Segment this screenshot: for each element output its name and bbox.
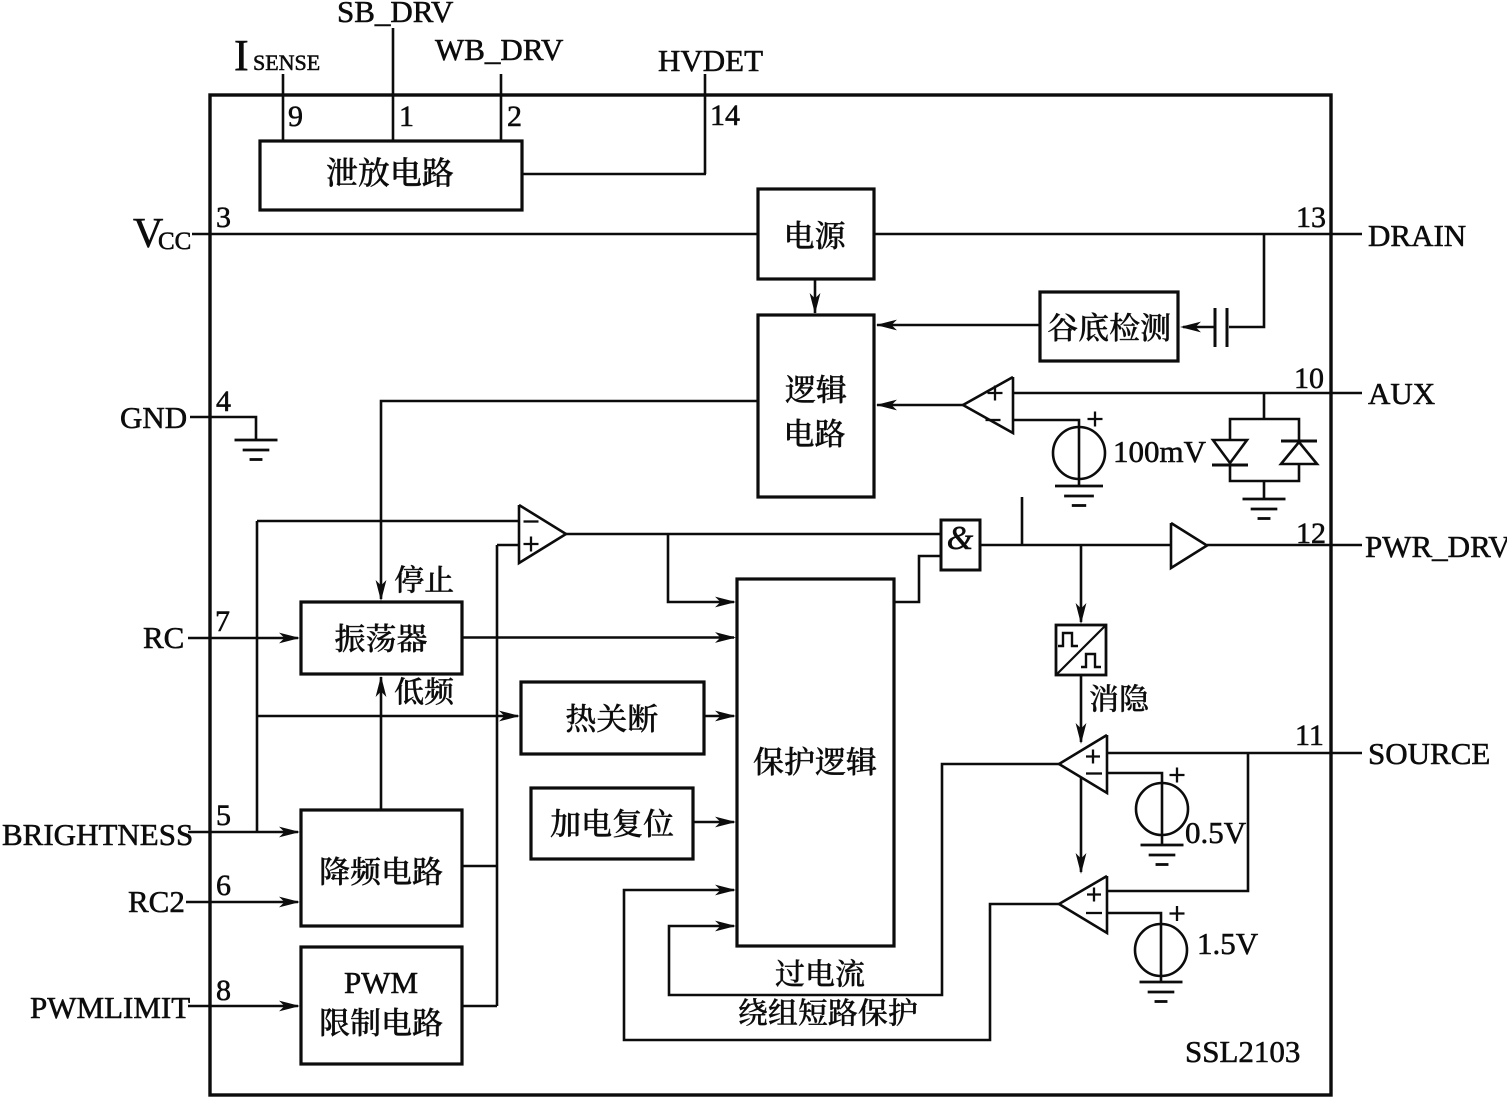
- wire U2 minus from node: [257, 520, 519, 523]
- pin number 10: [1294, 362, 1324, 395]
- wire AUX pin 10: [1013, 392, 1362, 395]
- pin label AUX: [1368, 376, 1435, 411]
- label 过电流: [776, 959, 864, 987]
- svg-text:13: 13: [1296, 201, 1326, 234]
- svg-text:9: 9: [288, 100, 303, 133]
- block U_osc 振荡器: [301, 602, 462, 674]
- svg-text:SENSE: SENSE: [253, 50, 320, 75]
- label 0.5V: [1185, 815, 1247, 850]
- wire ramp vertical: [496, 545, 499, 1006]
- pin label BRIGHTNESS: [2, 817, 193, 852]
- pin label RC2: [128, 884, 185, 919]
- wire PWR_DRV pin 12: [1207, 544, 1362, 547]
- pin label RC: [143, 620, 184, 655]
- svg-text:CC: CC: [158, 228, 191, 255]
- svg-text:RC2: RC2: [128, 884, 185, 919]
- voltage source V2 0.5V: [1136, 768, 1188, 836]
- wire pin 9: [282, 74, 285, 142]
- wire pin 1: [392, 28, 395, 142]
- pin label SB_DRV: [337, 0, 454, 29]
- svg-text:6: 6: [216, 869, 231, 902]
- wire overcurrent feedback: [669, 764, 1059, 995]
- pin number 6: [216, 869, 231, 902]
- ground GND1: [1055, 486, 1103, 506]
- wire DRAIN pin 13: [874, 233, 1362, 236]
- svg-text:10: 10: [1294, 362, 1324, 395]
- svg-text:12: 12: [1296, 517, 1326, 550]
- comparator U2: [519, 505, 566, 563]
- label 谷底检测: [1048, 312, 1169, 341]
- comparator U1 AUX: [963, 377, 1013, 433]
- wire protection to and: [894, 556, 941, 602]
- pin number 7: [215, 605, 230, 638]
- label PWM限制电路: [322, 965, 443, 1036]
- svg-text:11: 11: [1295, 719, 1324, 752]
- svg-text:5: 5: [216, 799, 231, 832]
- pin number 13: [1296, 201, 1326, 234]
- pin number 4: [216, 385, 231, 418]
- wire U2 plus: [497, 544, 519, 547]
- svg-text:0.5V: 0.5V: [1185, 815, 1247, 850]
- wire pwm out: [462, 1005, 497, 1008]
- svg-text:PWM: PWM: [344, 965, 418, 1000]
- svg-text:100mV: 100mV: [1113, 434, 1207, 469]
- svg-text:DRAIN: DRAIN: [1368, 218, 1466, 253]
- wire and out to logic: [1021, 497, 1024, 545]
- svg-text:BRIGHTNESS: BRIGHTNESS: [2, 817, 193, 852]
- label 停止: [395, 565, 453, 593]
- pin number 3: [216, 201, 231, 234]
- wire U6 minus: [1107, 773, 1162, 845]
- pin label V_CC: [133, 211, 191, 257]
- wire osc out: [462, 632, 736, 643]
- wire thermal out: [704, 711, 736, 722]
- label 振荡器: [335, 624, 427, 653]
- wire cap to valley detector: [1180, 322, 1214, 333]
- voltage source V1 100mV: [1053, 412, 1105, 480]
- wire por out: [693, 817, 736, 828]
- svg-text:PWMLIMIT: PWMLIMIT: [30, 990, 190, 1025]
- pin number 1: [399, 100, 414, 133]
- wire bleed to HVDET: [522, 173, 706, 176]
- block U_pwr 电源: [758, 189, 874, 279]
- svg-text:I: I: [234, 31, 249, 80]
- diode D1: [1212, 440, 1248, 465]
- wire freq out: [462, 865, 497, 868]
- svg-text:HVDET: HVDET: [658, 43, 763, 78]
- svg-text:SB_DRV: SB_DRV: [337, 0, 454, 29]
- wire drain branch: [1229, 234, 1264, 327]
- svg-text:SSL2103: SSL2103: [1185, 1034, 1300, 1069]
- block U_bleed 泄放电路: [260, 141, 522, 210]
- svg-text:WB_DRV: WB_DRV: [435, 32, 564, 67]
- wire U7 minus: [1107, 913, 1161, 982]
- wire pin 14 HVDET: [704, 74, 707, 174]
- label 绕组短路保护: [739, 998, 917, 1026]
- label 1.5V: [1197, 926, 1259, 961]
- wire VCC pin 3: [192, 233, 758, 236]
- pin number 2: [507, 100, 522, 133]
- wire and out: [980, 544, 1171, 547]
- svg-text:GND: GND: [120, 400, 187, 435]
- label SSL2103: [1185, 1034, 1300, 1069]
- wire diode branch: [1263, 393, 1266, 419]
- pin number 8: [216, 974, 231, 1007]
- ground GND3: [235, 440, 278, 460]
- comparator U7: [1059, 876, 1107, 933]
- wire power to logic: [810, 279, 821, 314]
- wire thermal in: [257, 711, 520, 722]
- buffer U5: [1171, 523, 1207, 568]
- pin label I_SENSE: [234, 31, 320, 80]
- block U_logic 逻辑电路: [758, 315, 874, 497]
- pin label PWMLIMIT: [30, 990, 190, 1025]
- svg-text:8: 8: [216, 974, 231, 1007]
- svg-text:AUX: AUX: [1368, 376, 1435, 411]
- wire U2 out branch to protection: [668, 534, 736, 607]
- block U_por 加电复位: [531, 788, 693, 859]
- wire winding short feedback: [624, 885, 1059, 1040]
- block U_thermal 热关断: [521, 682, 704, 754]
- wire brightness vertical: [256, 521, 259, 832]
- and gate U4: [941, 520, 980, 570]
- wire lowfreq: [376, 676, 387, 810]
- pin label WB_DRV: [435, 32, 564, 67]
- label 降频电路: [322, 857, 443, 886]
- svg-text:&: &: [947, 520, 974, 557]
- wire source branch: [1107, 753, 1248, 891]
- pin label DRAIN: [1368, 218, 1466, 253]
- wire BRIGHTNESS pin 5: [188, 827, 300, 838]
- wire SOURCE pin 11: [1107, 752, 1362, 755]
- label 逻辑电路: [786, 375, 847, 448]
- label 100mV: [1113, 434, 1207, 469]
- pin number 14: [710, 99, 740, 132]
- svg-text:2: 2: [507, 100, 522, 133]
- label 泄放电路: [327, 157, 453, 187]
- block U_valley 谷底检测: [1040, 292, 1178, 361]
- capacitor C1: [1215, 308, 1227, 347]
- label 消隐: [1090, 684, 1148, 712]
- wire U2 out: [566, 533, 941, 536]
- label 低频: [395, 677, 453, 705]
- block U_blank one-shot: [1056, 625, 1106, 675]
- IC boundary SSL2103: [210, 95, 1331, 1095]
- label 电源: [787, 221, 844, 250]
- pin label GND: [120, 400, 187, 435]
- wire RC2 pin 6: [186, 897, 300, 908]
- wire comp1 to comp2: [1076, 777, 1087, 874]
- pin number 12: [1296, 517, 1326, 550]
- label 保护逻辑: [754, 747, 876, 776]
- svg-text:3: 3: [216, 201, 231, 234]
- block U_freq 降频电路: [301, 810, 462, 926]
- pin label HVDET: [658, 43, 763, 78]
- wire stop: [376, 401, 758, 601]
- svg-text:4: 4: [216, 385, 231, 418]
- wire to blanking: [1076, 545, 1087, 624]
- label 加电复位: [551, 809, 673, 838]
- pin label PWR_DRV: [1365, 529, 1507, 564]
- diode D2: [1281, 441, 1317, 464]
- svg-text:7: 7: [215, 605, 230, 638]
- block U_pwmlim PWM限制电路: [301, 947, 462, 1064]
- ground GND4: [1141, 845, 1184, 865]
- label 热关断: [566, 704, 657, 733]
- wire RC pin 7: [188, 633, 300, 644]
- wire GND pin 4: [190, 417, 256, 440]
- svg-text:1.5V: 1.5V: [1197, 926, 1259, 961]
- voltage source V3 1.5V: [1135, 906, 1187, 976]
- pin label SOURCE: [1368, 736, 1490, 771]
- svg-text:14: 14: [710, 99, 740, 132]
- wire U1 out to logic: [876, 400, 963, 411]
- comparator U6: [1059, 735, 1107, 793]
- ground GND2: [1243, 481, 1286, 519]
- pin number 9: [288, 100, 303, 133]
- pin number 5: [216, 799, 231, 832]
- svg-text:RC: RC: [143, 620, 184, 655]
- block U_prot 保护逻辑: [737, 579, 894, 946]
- pin number 11: [1295, 719, 1324, 752]
- wire pin 2: [500, 74, 503, 142]
- wire valley to logic: [876, 320, 1040, 331]
- svg-text:PWR_DRV: PWR_DRV: [1365, 529, 1507, 564]
- ground GND5: [1140, 982, 1183, 1002]
- wire blanking to comp1: [1076, 675, 1087, 744]
- svg-text:1: 1: [399, 100, 414, 133]
- svg-text:SOURCE: SOURCE: [1368, 736, 1490, 771]
- wire diode rails: [1230, 419, 1299, 481]
- wire PWMLIMIT pin 8: [188, 1001, 300, 1012]
- wire U1 minus input: [1013, 420, 1079, 486]
